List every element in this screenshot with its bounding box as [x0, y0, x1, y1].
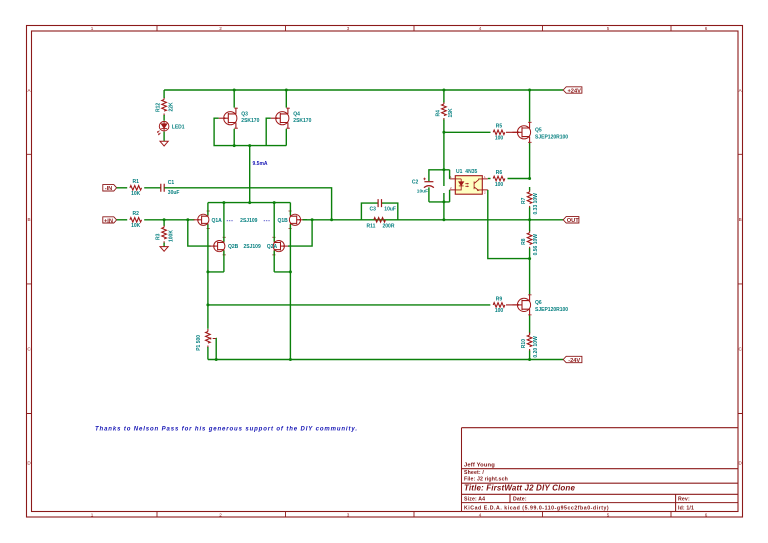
svg-text:0.20 10W: 0.20 10W: [533, 336, 539, 358]
junction R6 / Q5 source: [528, 177, 531, 180]
transistor Q2B 2SJ109: [210, 237, 239, 256]
svg-text:C3: C3: [370, 207, 377, 213]
resistor R4: [436, 102, 455, 121]
svg-text:Jeff Young: Jeff Young: [464, 463, 495, 469]
wire Q2B source: [223, 251, 225, 272]
wire bottom -24V rail: [208, 359, 563, 361]
junction Q2B gate branch: [186, 218, 189, 221]
svg-text:---: ---: [227, 218, 234, 224]
wire top +24V rail: [164, 89, 563, 91]
svg-text:15K: 15K: [448, 108, 454, 118]
svg-text:File: J2 right.sch: File: J2 right.sch: [464, 477, 508, 483]
wire R10 bottom: [529, 351, 531, 360]
svg-text:R4: R4: [436, 110, 442, 117]
border zone letters left: [27, 88, 31, 466]
svg-text:LED1: LED1: [172, 124, 185, 130]
opto pin stubs: [450, 179, 488, 190]
svg-text:SJEP120R100: SJEP120R100: [535, 135, 568, 141]
border zone numbers bottom: [91, 512, 708, 517]
svg-text:Sheet: /: Sheet: /: [464, 470, 484, 476]
junction C1 feedback / output row: [330, 218, 333, 221]
transistor Q1A 2SJ109: [194, 211, 223, 230]
wire main bias vertical lower: [443, 193, 445, 220]
svg-text:2: 2: [219, 512, 222, 517]
wire Q3 gate loop: [214, 118, 286, 145]
junction R3 / +IN wire: [163, 218, 166, 221]
wire Q3 drain: [233, 90, 235, 108]
svg-text:C1: C1: [168, 180, 175, 186]
svg-text:4: 4: [479, 512, 482, 517]
border zone letters right: [739, 88, 743, 466]
svg-text:Q6: Q6: [535, 300, 542, 306]
wire Q5 drain: [529, 90, 531, 122]
svg-text:10K: 10K: [131, 191, 141, 197]
capacitor C3 and resistor R11 loop: [361, 203, 397, 220]
svg-text:C2: C2: [412, 179, 419, 185]
junction bias network / OUT rail: [442, 218, 445, 221]
svg-text:Q2A: Q2A: [267, 244, 278, 250]
wire Q1B gate to output row: [303, 219, 308, 221]
global label OUT: [563, 217, 579, 225]
junction R4 / +24V rail: [442, 89, 445, 92]
resistor R8: [521, 230, 539, 255]
svg-text:3: 3: [347, 512, 350, 517]
svg-text:Thanks to Nelson Pass for his: Thanks to Nelson Pass for his generous s…: [95, 427, 358, 433]
svg-text:2SK170: 2SK170: [293, 118, 311, 124]
transistor Q3 2SK170: [219, 108, 260, 129]
wire Q2B drain: [223, 203, 225, 242]
global label +24V: [563, 87, 582, 95]
svg-text:100: 100: [495, 308, 504, 314]
wire Q1B drain: [289, 203, 291, 216]
svg-text:0.33 10W: 0.33 10W: [533, 193, 539, 215]
wire -IN to R1: [117, 187, 128, 189]
junction R10 / -24V rail: [528, 358, 531, 361]
wire LED to gnd: [163, 132, 165, 142]
junction R4 / R5 node: [442, 131, 445, 134]
wire R4 leads: [443, 90, 445, 132]
wire Q2A drain: [273, 203, 275, 242]
svg-text:Size: A4: Size: A4: [464, 497, 485, 503]
capacitor C1: [161, 180, 180, 196]
svg-text:R12: R12: [156, 103, 162, 112]
wire +IN to R2: [117, 219, 128, 221]
junction Q5 drain / +24V rail: [528, 89, 531, 92]
wire R3 leads: [163, 220, 165, 247]
capacitor C2: [423, 178, 434, 188]
resistor R6: [493, 170, 505, 188]
global label -24V: [563, 356, 582, 364]
junction left source U / P1: [206, 270, 209, 273]
svg-text:Q4: Q4: [293, 112, 300, 118]
potentiometer P1 500: [196, 329, 216, 351]
wire to Q6 drain: [529, 259, 531, 295]
svg-text:30uF: 30uF: [168, 190, 180, 196]
svg-text:Q1B: Q1B: [278, 218, 289, 224]
wire main bias vertical upper: [443, 132, 445, 186]
wire R5 to Q5 gate red pin link: [506, 131, 518, 133]
junction Q3 source node: [233, 144, 236, 147]
svg-text:0.56 10W: 0.56 10W: [533, 234, 539, 256]
wire R7 leads: [529, 187, 531, 220]
svg-text:Date:: Date:: [513, 497, 527, 503]
junction Q3 drain / +24V rail: [233, 89, 236, 92]
svg-text:2SK170: 2SK170: [241, 118, 259, 124]
junction Q2A drain / LTP rail: [273, 201, 276, 204]
capacitor C2 loop: [429, 170, 450, 202]
svg-text:B: B: [739, 217, 742, 222]
wire P1 wiper down: [215, 339, 217, 360]
junction Q4 drain / +24V rail: [285, 89, 288, 92]
svg-text:SJEP120R100: SJEP120R100: [535, 307, 568, 313]
wire +IN branch to Q2B gate: [188, 220, 211, 246]
wire Q6 source: [529, 316, 531, 334]
svg-text:+24V: +24V: [567, 88, 581, 94]
svg-text:2SJ109: 2SJ109: [240, 218, 257, 224]
svg-text:2SJ109: 2SJ109: [244, 244, 261, 250]
svg-text:Q3: Q3: [241, 112, 248, 118]
svg-text:B: B: [27, 217, 30, 222]
wire Q2A source: [273, 251, 275, 272]
wire right source U: [274, 271, 290, 273]
svg-text:+IN: +IN: [104, 218, 113, 224]
svg-text:4: 4: [479, 26, 482, 31]
svg-text:---: ---: [264, 218, 271, 224]
wire LTP top rail: [208, 202, 291, 204]
wire Q1B source down: [289, 224, 291, 359]
svg-text:3: 3: [347, 26, 350, 31]
svg-text:R10: R10: [521, 339, 527, 348]
svg-text:R9: R9: [496, 296, 503, 302]
svg-text:R7: R7: [521, 197, 527, 204]
optocoupler U1 4N35: [455, 169, 482, 194]
svg-text:6: 6: [705, 26, 708, 31]
wire OUT rail: [303, 219, 564, 221]
svg-text:R8: R8: [521, 238, 527, 245]
wire C1 to feedback node: [164, 188, 331, 220]
wire left node down to P1: [207, 272, 209, 329]
transistor Q1B 2SJ109: [278, 211, 305, 230]
svg-text:-IN: -IN: [105, 186, 113, 192]
svg-text:R11: R11: [367, 223, 376, 229]
wire opto cathode: [449, 190, 451, 202]
wire opto anode: [449, 170, 451, 179]
svg-text:100: 100: [495, 182, 504, 188]
wire Q1A source down: [207, 224, 209, 272]
svg-text:4N35: 4N35: [465, 169, 477, 175]
resistor R11: [367, 218, 395, 230]
ground under LED1: [160, 141, 168, 146]
wire R2 to Q1A gate: [144, 219, 194, 221]
wire left source U: [208, 271, 224, 273]
svg-text:9.5mA: 9.5mA: [253, 161, 268, 167]
svg-text:5: 5: [607, 26, 610, 31]
svg-text:R3: R3: [156, 233, 162, 240]
wire Q4 source: [285, 129, 287, 146]
junction opto emitter / Q6 drain: [528, 257, 531, 260]
global label -IN: [103, 185, 117, 193]
junction P1 wiper / -24V rail: [215, 358, 218, 361]
ground under R3: [160, 247, 168, 252]
resistor R10: [521, 333, 539, 358]
wire R4 node to R5: [444, 131, 491, 133]
junction LTP tail / -24V rail: [289, 358, 292, 361]
svg-text:Q1A: Q1A: [212, 218, 223, 224]
junction R7-R8 / OUT rail: [528, 218, 531, 221]
resistor R7: [521, 189, 539, 214]
junction 9.5mA feed / LTP rail: [248, 201, 251, 204]
resistor R12: [156, 97, 175, 116]
svg-text:1: 1: [91, 26, 94, 31]
transistor Q2A 2SJ109: [267, 237, 289, 256]
wire Q5 source: [529, 143, 531, 179]
border zone numbers top: [91, 26, 708, 31]
wire current source to LTP: [249, 146, 251, 203]
junction C2 top / bias line: [442, 168, 445, 171]
junction C2 bottom / bias line: [442, 200, 445, 203]
wire P1 bottom: [207, 347, 209, 360]
svg-text:2: 2: [219, 26, 222, 31]
wire opto collector to R6: [488, 178, 491, 180]
wire Q4 drain: [285, 90, 287, 108]
wire Q1A drain: [207, 203, 209, 216]
junction first stage output node: [206, 303, 209, 306]
svg-text:KiCad E.D.A. kicad (5.99.0-11: KiCad E.D.A. kicad (5.99.0-110-g95cc2fba…: [464, 505, 609, 511]
svg-text:100: 100: [495, 136, 504, 142]
svg-text:100K: 100K: [168, 230, 174, 242]
wire Q4 gate loop: [266, 118, 271, 145]
svg-text:-24V: -24V: [568, 358, 580, 364]
wire opto emitter down: [488, 190, 530, 259]
svg-text:10K: 10K: [131, 223, 141, 229]
svg-text:1: 1: [91, 512, 94, 517]
svg-text:200R: 200R: [383, 223, 395, 229]
transistor Q4 2SK170: [271, 108, 312, 129]
svg-text:R6: R6: [496, 170, 503, 176]
wire R9 to Q6 gate red pin link: [506, 304, 518, 306]
transistor Q5 SJEP120R100: [512, 122, 568, 143]
svg-text:R1: R1: [132, 179, 139, 185]
junction right source U / tail: [289, 270, 292, 273]
svg-text:10uF: 10uF: [384, 207, 396, 213]
svg-text:Id: 1/1: Id: 1/1: [678, 505, 694, 511]
title block frame: [462, 428, 739, 512]
svg-text:OUT: OUT: [567, 218, 580, 224]
wire Q2A gate to node: [288, 220, 312, 246]
svg-text:Q2B: Q2B: [228, 244, 239, 250]
wire R8 leads: [529, 220, 531, 259]
LED LED1: [157, 121, 169, 135]
svg-text:10uF: 10uF: [417, 188, 428, 194]
svg-text:6: 6: [705, 512, 708, 517]
svg-text:Rev:: Rev:: [678, 497, 690, 503]
wire Q3 source: [233, 129, 235, 146]
resistor R3: [156, 225, 175, 244]
resistor R5: [493, 124, 505, 142]
svg-text:5: 5: [607, 512, 610, 517]
wire R12 top: [163, 90, 165, 121]
capacitor C3: [370, 199, 396, 213]
junction current source output: [248, 144, 251, 147]
svg-text:P1 500: P1 500: [196, 335, 202, 351]
svg-text:U1: U1: [456, 169, 463, 175]
junction Q2A gate / output row: [311, 218, 314, 221]
resistor R9: [493, 296, 505, 314]
svg-text:R2: R2: [132, 211, 139, 217]
transistor Q6 SJEP120R100: [512, 294, 568, 315]
resistor R2: [130, 211, 142, 229]
wire first stage output to R9: [208, 304, 490, 306]
wire R1 to C1: [144, 187, 161, 189]
wire R6 to Q5 source line: [508, 178, 530, 180]
svg-text:R5: R5: [496, 124, 503, 130]
resistor R1: [130, 179, 142, 197]
svg-text:Title: FirstWatt J2 DIY Clone: Title: FirstWatt J2 DIY Clone: [464, 484, 575, 493]
svg-text:Q5: Q5: [535, 127, 542, 133]
svg-text:22K: 22K: [168, 102, 174, 112]
global label +IN: [103, 217, 117, 225]
junction Q2B drain / LTP rail: [222, 201, 225, 204]
